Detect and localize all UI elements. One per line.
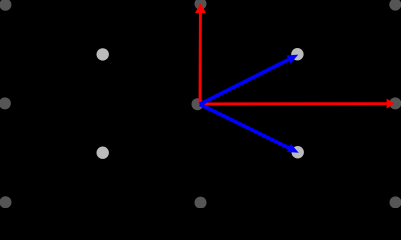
lattice point dark top-left <box>0 0 11 11</box>
lattice point dark bottom-left <box>0 196 12 208</box>
vector blue lower shaft <box>200 104 289 148</box>
lattice point dark bottom-middle <box>195 197 207 209</box>
lattice point dark bottom-right <box>390 196 401 208</box>
lattice point light lower-right <box>292 146 304 158</box>
lattice point dark top-middle <box>195 0 207 10</box>
vector red horizontal arrowhead <box>387 99 395 109</box>
lattice point dark left-middle <box>0 97 11 109</box>
vector blue upper arrowhead <box>287 55 299 64</box>
vector blue upper shaft <box>200 60 289 105</box>
lattice point light upper-left <box>97 48 109 60</box>
vector red horizontal shaft <box>200 102 387 105</box>
vector red vertical shaft <box>199 13 202 103</box>
lattice point dark right-middle <box>389 97 401 109</box>
vector red vertical arrowhead <box>195 3 206 13</box>
lattice point light upper-right <box>291 48 303 60</box>
lattice point dark center origin <box>192 98 204 110</box>
lattice point light lower-left <box>97 147 109 159</box>
lattice point dark top-right <box>389 0 401 11</box>
vector blue lower arrowhead <box>287 144 299 153</box>
